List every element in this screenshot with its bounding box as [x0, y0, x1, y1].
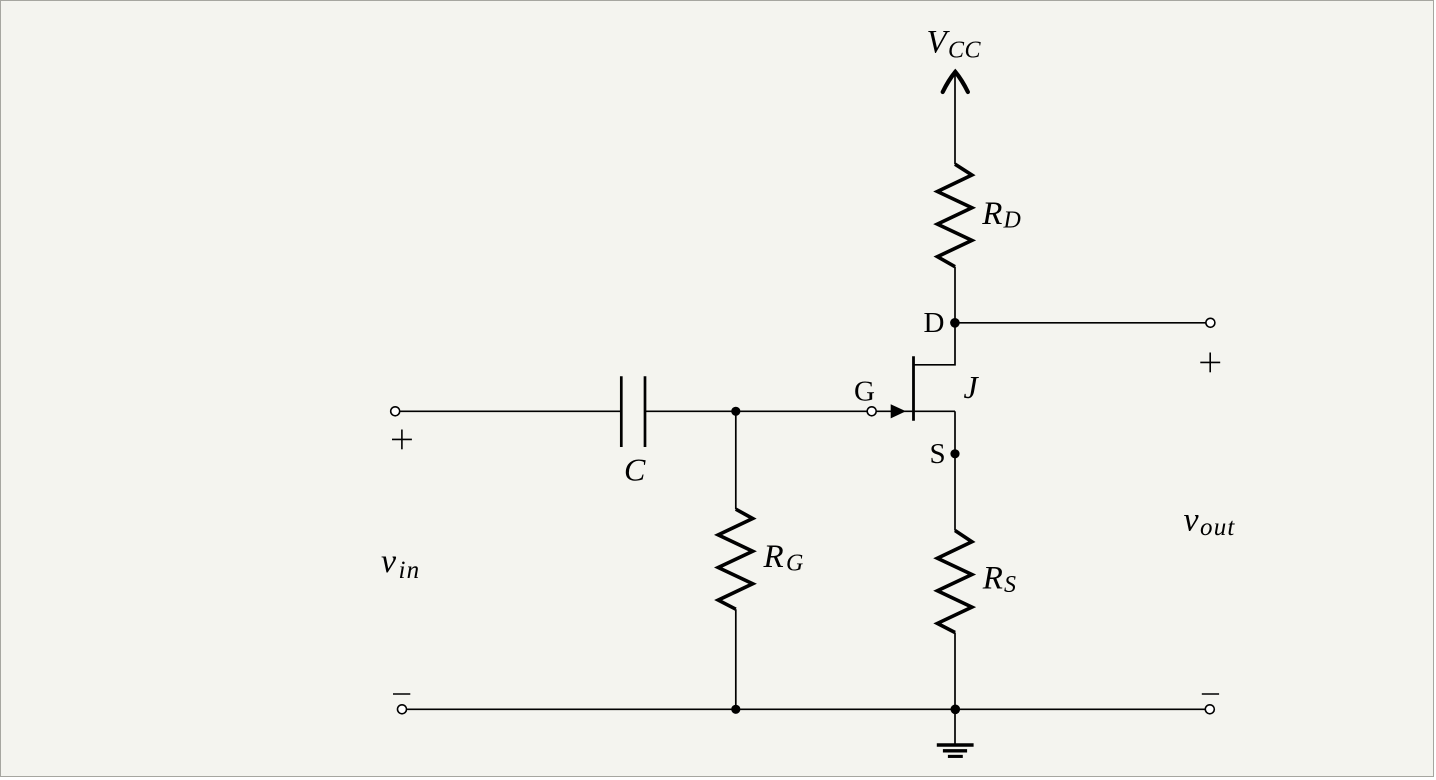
svg-text:S: S: [930, 438, 946, 470]
minus sign output: [1202, 693, 1219, 695]
svg-text:C: C: [624, 452, 646, 488]
svg-text:R: R: [982, 561, 1003, 597]
svg-text:R: R: [981, 196, 1002, 232]
node D junction dot: [950, 318, 960, 328]
wire RD bottom lead to node D: [954, 267, 956, 323]
wire VCC arrow to RD top lead: [954, 74, 956, 165]
svg-text:R: R: [763, 539, 784, 575]
wire bottom rail: [406, 708, 1205, 710]
minus sign input: [393, 693, 410, 695]
transistor J gate bar: [912, 356, 915, 421]
terminal output top: [1206, 318, 1215, 327]
transistor J gate arrowhead: [891, 404, 906, 418]
wire JFET source lead to RS: [954, 411, 956, 530]
junction dot bottom rail at RS/ground: [951, 705, 961, 715]
wire RG bottom lead: [735, 609, 737, 709]
wire gate terminal to JFET gate bar: [876, 410, 912, 412]
svg-text:v: v: [1184, 502, 1200, 539]
svg-text:G: G: [854, 375, 875, 407]
svg-text:D: D: [1003, 208, 1021, 234]
resistor RD: [937, 164, 972, 267]
wire node G junction to RG top lead: [735, 411, 737, 509]
wire RS bottom lead: [954, 633, 956, 710]
wire JFET source lead horizontal: [914, 410, 956, 412]
svg-text:CC: CC: [948, 37, 982, 63]
plus sign input: [392, 430, 412, 450]
svg-text:G: G: [786, 551, 803, 577]
capacitor C plates: [621, 376, 645, 447]
svg-text:in: in: [399, 557, 421, 584]
wire input terminal to capacitor: [400, 410, 622, 412]
resistor RG: [718, 509, 753, 609]
VCC arrow: [943, 72, 968, 92]
wire ground stem: [954, 709, 956, 744]
node junction dot at RG top: [731, 407, 740, 416]
junction dot bottom rail at RG: [731, 705, 740, 714]
svg-text:v: v: [381, 543, 397, 580]
plus sign output: [1200, 353, 1220, 373]
svg-text:J: J: [964, 369, 980, 405]
ground: [937, 745, 974, 756]
node S junction dot: [950, 449, 959, 458]
svg-text:D: D: [924, 307, 945, 339]
svg-text:out: out: [1200, 514, 1236, 541]
svg-text:S: S: [1004, 572, 1016, 598]
terminal output bottom: [1205, 705, 1214, 714]
terminal gate G: [867, 407, 876, 416]
svg-text:V: V: [927, 25, 951, 61]
wire capacitor to gate terminal: [645, 410, 868, 412]
terminal input bottom: [398, 705, 407, 714]
wire node D to output terminal: [955, 322, 1206, 324]
resistor RS: [937, 531, 972, 633]
terminal input top: [391, 407, 400, 416]
wire JFET drain lead: [914, 323, 956, 365]
